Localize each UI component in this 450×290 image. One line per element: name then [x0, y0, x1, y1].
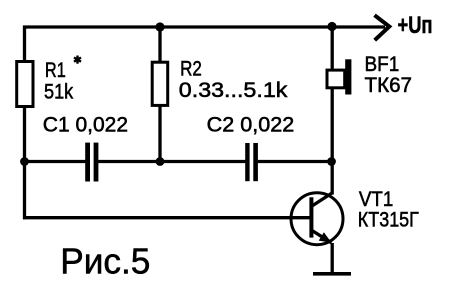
- wire R2 branch bottom: [158, 105, 161, 163]
- wire left vertical rail: [23, 26, 26, 220]
- svg-text:C1 0,022: C1 0,022: [43, 113, 128, 136]
- svg-text:R2: R2: [180, 58, 202, 81]
- transducer BF1: [327, 59, 351, 94]
- svg-text:КТ315Г: КТ315Г: [358, 208, 419, 231]
- node middle R2 junction: [156, 157, 165, 166]
- svg-text:+Uп: +Uп: [398, 12, 433, 39]
- ground: [313, 272, 351, 276]
- transistor VT1: [291, 193, 343, 245]
- supply arrow: [375, 15, 390, 40]
- node top R2 junction: [155, 22, 164, 31]
- svg-text:Рис.5: Рис.5: [60, 241, 150, 282]
- wire top supply rail: [23, 25, 385, 28]
- node top BF1 junction: [327, 22, 336, 31]
- svg-text:ТК67: ТК67: [365, 74, 413, 97]
- wire middle left segment: [25, 160, 86, 163]
- capacitor C1: [85, 143, 98, 182]
- node middle left junction: [20, 157, 29, 166]
- svg-text:0.33...5.1k: 0.33...5.1k: [179, 79, 288, 102]
- wire middle centre segment: [98, 160, 245, 163]
- svg-text:C2 0,022: C2 0,022: [207, 113, 295, 136]
- svg-text:R1: R1: [45, 59, 66, 82]
- wire collector vertical (BF1 to VT1): [331, 88, 334, 195]
- capacitor C2: [245, 143, 258, 181]
- svg-text:51k: 51k: [44, 80, 74, 103]
- resistor R1: [17, 62, 33, 107]
- asterisk marker: [74, 56, 81, 64]
- wire emitter vertical: [331, 243, 334, 274]
- resistor R2: [152, 62, 168, 105]
- node middle collector junction: [327, 157, 336, 166]
- wire R2 branch top: [158, 26, 161, 63]
- wire BF1 branch top: [331, 26, 334, 70]
- svg-text:BF1: BF1: [365, 53, 400, 76]
- wire base line: [23, 216, 311, 219]
- wire middle right segment: [258, 160, 332, 163]
